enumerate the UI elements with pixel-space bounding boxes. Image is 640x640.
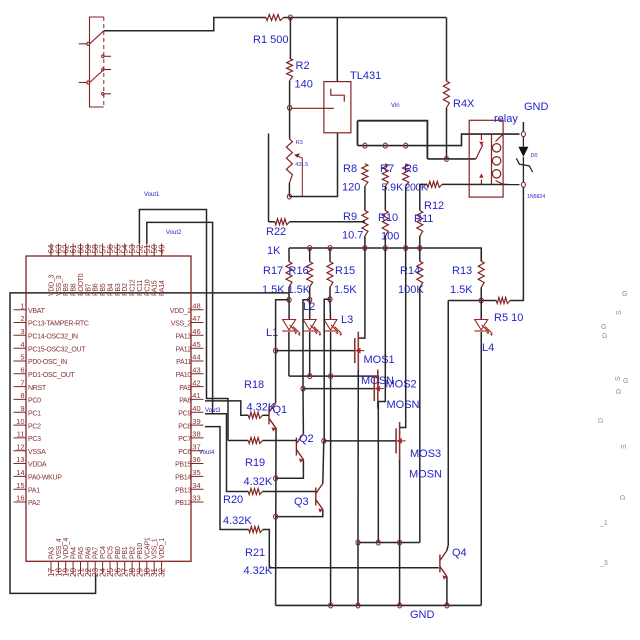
- svg-text:45: 45: [192, 340, 200, 349]
- wire PA7 loop to R17 column: [10, 293, 289, 594]
- diode D0 1N5824: [522, 137, 524, 147]
- svg-text:13: 13: [16, 455, 24, 464]
- svg-text:PB4: PB4: [107, 283, 114, 296]
- svg-text:PA11: PA11: [176, 359, 191, 366]
- resistor R8: [362, 164, 368, 187]
- wire R16 to node: [309, 287, 311, 300]
- svg-text:PA3: PA3: [49, 547, 56, 559]
- wire TL431 cathode to top rail: [336, 18, 338, 82]
- svg-text:VSS_1: VSS_1: [152, 538, 159, 559]
- svg-text:Vin: Vin: [391, 103, 400, 109]
- svg-text:44: 44: [192, 353, 200, 362]
- svg-text:L2: L2: [303, 301, 315, 313]
- node GND MOS1: [356, 603, 360, 608]
- svg-text:34: 34: [192, 481, 200, 490]
- svg-text:PA6: PA6: [85, 547, 92, 559]
- node bus R6 column: [404, 246, 408, 251]
- wire R12 to relay NO contact and coil bottom: [442, 183, 520, 185]
- wire R5 to Q4 collector corner: [448, 300, 496, 302]
- wire MOS1 source to source bus: [357, 370, 359, 543]
- svg-text:47: 47: [192, 314, 200, 323]
- svg-text:PB7: PB7: [85, 283, 92, 296]
- wire R15 to node: [329, 287, 331, 299]
- relay K1 switch: [476, 134, 483, 184]
- svg-text:1.5K: 1.5K: [334, 284, 357, 296]
- svg-text:PA15: PA15: [152, 280, 159, 296]
- wire node to TL431 anode: [289, 133, 337, 197]
- wire Q3 collector column: [323, 441, 324, 484]
- svg-text:PB9: PB9: [63, 283, 70, 296]
- svg-text:120: 120: [342, 182, 360, 194]
- svg-text:4: 4: [20, 340, 24, 349]
- wire top rail down to R4X: [446, 18, 448, 82]
- svg-text:PC15-OSC32_OUT: PC15-OSC32_OUT: [28, 346, 86, 353]
- svg-text:VDD_2: VDD_2: [170, 308, 191, 315]
- node MOS1 gate: [274, 348, 278, 353]
- svg-text:4.32K: 4.32K: [244, 476, 273, 488]
- wire switch to R1: [104, 18, 266, 31]
- wire pin41 to R18: [205, 401, 248, 415]
- svg-text:PA2: PA2: [28, 500, 40, 507]
- switch S1 contacts: [79, 31, 111, 94]
- svg-text:VSS_3: VSS_3: [56, 275, 63, 296]
- svg-text:Vout3: Vout3: [205, 408, 221, 414]
- node R17 bottom: [287, 297, 291, 302]
- node bus R9: [363, 246, 367, 251]
- resistor R20: [248, 489, 262, 495]
- switch S1 throw contact a: [102, 55, 104, 58]
- svg-text:Vout2: Vout2: [166, 230, 182, 236]
- wire node to TL431 ref: [291, 107, 334, 109]
- potentiometer R3 wiper: [296, 155, 303, 196]
- node R13 bottom L4 top: [479, 298, 483, 303]
- svg-text:1K: 1K: [267, 245, 281, 257]
- wire Q2 emitter to Q1 emitter: [276, 460, 304, 479]
- svg-text:PA9: PA9: [179, 385, 191, 392]
- svg-text:PB2: PB2: [130, 546, 137, 559]
- svg-text:VBAT: VBAT: [28, 308, 46, 315]
- wire source bus: [358, 542, 420, 544]
- svg-text:11: 11: [17, 430, 25, 439]
- wire L2 cathode down: [309, 332, 311, 376]
- svg-text:PA10: PA10: [176, 372, 192, 379]
- svg-text:10.7: 10.7: [342, 230, 363, 242]
- svg-text:VDDA: VDDA: [28, 462, 47, 469]
- LED L4: [474, 320, 493, 337]
- wire R10 column to MOS2 source bend: [378, 248, 385, 402]
- resistor R15: [327, 262, 333, 287]
- transistor Q3: [316, 484, 323, 510]
- wire Vin down to divider top: [357, 121, 359, 146]
- wire node to L3: [329, 299, 332, 319]
- svg-text:VDD_4: VDD_4: [63, 538, 70, 559]
- node GND Q4: [445, 603, 449, 608]
- wire R16 node to MOS2 gate column: [303, 300, 310, 389]
- svg-text:S: S: [616, 310, 623, 315]
- svg-text:PD0-OSC_IN: PD0-OSC_IN: [28, 359, 67, 366]
- potentiometer R3: [286, 139, 292, 183]
- svg-text:MOS2: MOS2: [386, 379, 417, 391]
- wire R8 to R9: [364, 186, 366, 210]
- resistor R2: [287, 58, 293, 80]
- svg-text:37: 37: [192, 442, 200, 451]
- svg-text:35: 35: [192, 468, 200, 477]
- svg-text:1.5K: 1.5K: [262, 284, 285, 296]
- svg-text:PC1: PC1: [28, 410, 41, 417]
- node bus R10: [383, 246, 387, 251]
- wire Q4 base line: [269, 567, 439, 569]
- svg-text:MOS3: MOS3: [410, 448, 441, 460]
- node LED line L3: [329, 374, 333, 379]
- wire R12 junction down to R11: [419, 184, 421, 210]
- wire R1 to R4X column: [284, 17, 447, 19]
- node bus R16: [308, 246, 312, 251]
- svg-text:S: S: [615, 376, 622, 381]
- svg-text:38: 38: [192, 430, 200, 439]
- svg-text:L1: L1: [266, 327, 278, 339]
- resistor R13: [478, 261, 484, 287]
- wire Vin rail: [358, 121, 428, 159]
- transistor MOS2: [374, 370, 378, 409]
- wire node to L4: [480, 301, 482, 320]
- wire relay terminal to GND stub: [522, 122, 524, 132]
- svg-text:6: 6: [20, 366, 24, 375]
- svg-text:R2: R2: [296, 60, 310, 72]
- svg-text:PC13-TAMPER-RTC: PC13-TAMPER-RTC: [28, 321, 89, 328]
- node GND MOS3: [398, 603, 402, 608]
- wire R19 to Q2 base: [263, 440, 297, 442]
- switch S1 dashed box: [90, 17, 104, 107]
- svg-text:PA14: PA14: [159, 280, 166, 296]
- svg-text:140: 140: [295, 79, 313, 91]
- svg-text:R7: R7: [380, 163, 394, 175]
- IC U2 MCU body: [26, 256, 191, 561]
- wire R14 column to source bus: [419, 288, 421, 543]
- wire pin39 to R21: [205, 427, 249, 530]
- wire R6 column to bus: [405, 186, 407, 248]
- node MOS3 gate: [322, 438, 326, 443]
- svg-text:46: 46: [192, 327, 200, 336]
- svg-text:PC8: PC8: [178, 423, 191, 430]
- wire top rail to R2: [289, 18, 291, 59]
- wire R22 left: [269, 221, 275, 223]
- svg-text:7: 7: [20, 378, 24, 387]
- transistor Q1: [269, 402, 276, 428]
- svg-text:1.5K: 1.5K: [450, 284, 473, 296]
- svg-text:TL431: TL431: [350, 70, 381, 82]
- svg-text:PB1: PB1: [122, 546, 129, 559]
- wire GND rail: [276, 604, 482, 606]
- svg-text:R3: R3: [296, 140, 303, 146]
- svg-text:PB3: PB3: [115, 283, 122, 296]
- svg-text:PB6: PB6: [93, 283, 100, 296]
- wire reference bus: [289, 248, 481, 261]
- svg-text:D: D: [598, 418, 605, 423]
- svg-text:PA1: PA1: [28, 487, 40, 494]
- svg-text:PD1-OSC_OUT: PD1-OSC_OUT: [28, 372, 76, 379]
- node R6 top: [404, 143, 408, 148]
- svg-text:R8: R8: [343, 163, 357, 175]
- svg-text:2: 2: [20, 314, 24, 323]
- wire R9 column to MOS1 drain: [358, 248, 365, 338]
- svg-text:431.5: 431.5: [295, 162, 308, 168]
- wire R9 to bus: [364, 236, 366, 248]
- svg-text:R10: R10: [378, 212, 398, 224]
- svg-text:Q2: Q2: [299, 433, 314, 445]
- svg-text:VSSA: VSSA: [28, 449, 46, 456]
- wire R17 node to MOS1 gate column: [276, 300, 290, 351]
- wire R6 column to MOS3 drain: [400, 248, 406, 428]
- svg-text:PC0: PC0: [28, 398, 41, 405]
- svg-text:48: 48: [192, 301, 200, 310]
- resistor R16: [307, 262, 313, 287]
- svg-text:3: 3: [20, 327, 24, 336]
- LED L2: [303, 320, 322, 337]
- svg-text:PC6: PC6: [178, 449, 191, 456]
- svg-text:PD2: PD2: [122, 283, 129, 296]
- svg-text:VSS_4: VSS_4: [56, 538, 63, 559]
- svg-text:4.32K: 4.32K: [223, 515, 252, 527]
- svg-text:PC14-OSC32_IN: PC14-OSC32_IN: [28, 334, 78, 341]
- svg-text:R6: R6: [404, 163, 418, 175]
- svg-text:PC4: PC4: [100, 546, 107, 559]
- wire Q4 emitter to GND: [446, 577, 448, 606]
- wire R22 left stub: [268, 134, 270, 222]
- svg-text:100: 100: [381, 231, 399, 243]
- wire L4 cathode to GND rail: [480, 332, 482, 605]
- svg-text:42: 42: [192, 378, 200, 387]
- node R4X bottom: [444, 156, 448, 161]
- svg-text:PB13: PB13: [175, 487, 191, 494]
- wire R4X to mid rail: [446, 108, 448, 159]
- svg-text:43: 43: [192, 366, 200, 375]
- resistor R4X: [443, 81, 449, 108]
- relay K1 body: [469, 120, 503, 197]
- svg-text:PA13: PA13: [176, 334, 192, 341]
- svg-text:PC2: PC2: [28, 423, 41, 430]
- svg-text:PA5: PA5: [78, 547, 85, 559]
- wire Q4 collector column: [447, 301, 449, 546]
- LED L3: [324, 320, 343, 337]
- resistor R14: [417, 261, 423, 287]
- svg-text:PB12: PB12: [175, 500, 191, 507]
- svg-text:36: 36: [192, 455, 200, 464]
- svg-text:Q3: Q3: [294, 496, 309, 508]
- wire MOS3 source to GND: [399, 460, 401, 606]
- node source bus MOS3: [398, 540, 402, 545]
- resistor R12: [427, 181, 442, 187]
- wire MOS1 source to GND rail: [357, 543, 359, 606]
- svg-text:16: 16: [16, 494, 24, 503]
- svg-text:33: 33: [192, 494, 200, 503]
- svg-text:R4X: R4X: [453, 98, 475, 110]
- svg-text:PB10: PB10: [137, 543, 144, 559]
- svg-text:R14: R14: [400, 265, 420, 277]
- wire Q3 emitter to Q1 emitter: [276, 510, 323, 517]
- node bus R15: [328, 246, 332, 251]
- wire Vout1 pin52 to R19: [139, 210, 228, 441]
- node source bus MOS1: [356, 540, 360, 545]
- svg-text:G: G: [622, 291, 627, 298]
- svg-text:R13: R13: [452, 265, 472, 277]
- svg-text:10: 10: [16, 417, 24, 426]
- resistor R6: [403, 164, 409, 187]
- wire R17 to node: [288, 287, 290, 300]
- svg-text:Q4: Q4: [452, 547, 467, 559]
- svg-text:PC7: PC7: [178, 436, 191, 443]
- resistor R7: [382, 164, 388, 187]
- wire R13 to node: [480, 288, 482, 301]
- svg-text:GND: GND: [410, 609, 435, 621]
- wire mid rail to relay common: [427, 158, 475, 160]
- node GND L3: [329, 603, 333, 608]
- svg-text:PA0-WKUP: PA0-WKUP: [28, 475, 62, 482]
- svg-text:4.32K: 4.32K: [247, 402, 276, 414]
- wire MOS1 gate: [276, 350, 355, 352]
- svg-text:R21: R21: [245, 547, 265, 559]
- node R8 top: [363, 143, 367, 148]
- svg-text:PB8: PB8: [71, 283, 78, 296]
- svg-text:D0: D0: [531, 153, 538, 159]
- svg-text:PA4: PA4: [71, 547, 78, 559]
- MCU left and right pin stubs: [14, 310, 204, 502]
- wire bus to R14: [419, 248, 421, 261]
- svg-text:1N5824: 1N5824: [527, 194, 545, 200]
- wire R11 column to R12: [420, 183, 427, 185]
- svg-text:R15: R15: [335, 265, 355, 277]
- svg-text:200K: 200K: [405, 182, 428, 194]
- svg-text:R12: R12: [424, 200, 444, 212]
- svg-text:G: G: [623, 378, 628, 385]
- svg-text:VCAP1: VCAP1: [144, 537, 151, 559]
- node LED line L2: [308, 374, 312, 379]
- resistor R19: [248, 438, 262, 444]
- svg-text:40: 40: [192, 404, 200, 413]
- resistor R11: [417, 211, 423, 237]
- node emitters Q1 Q3: [274, 514, 278, 519]
- svg-text:GND: GND: [524, 101, 549, 113]
- wire bus to R15: [329, 248, 331, 262]
- svg-text:G: G: [601, 324, 606, 331]
- wire divider top rail to relay NC and coil: [358, 134, 520, 146]
- svg-text:12: 12: [16, 442, 24, 451]
- wire staircase to R19: [228, 440, 248, 442]
- wire node to R3: [289, 108, 291, 139]
- svg-text:PB0: PB0: [115, 546, 122, 559]
- svg-text:NRST: NRST: [28, 385, 47, 392]
- transistor Q4: [440, 551, 447, 577]
- wire R15 node to MOS3 gate column: [324, 299, 330, 441]
- wire R18 to Q1 base: [263, 414, 270, 416]
- node top rail at R1: [288, 15, 292, 20]
- node R15 bottom: [328, 297, 332, 302]
- wire bus to R17: [288, 248, 290, 262]
- wire MOS3 gate: [324, 440, 396, 442]
- resistor R9: [362, 211, 368, 237]
- svg-text:MOS1: MOS1: [364, 354, 395, 366]
- relay terminal bottom: [521, 182, 525, 187]
- relay terminal top: [521, 132, 525, 137]
- wire MOS2 source to source bus: [377, 402, 379, 543]
- wire Q2 collector column: [302, 389, 304, 434]
- svg-text:_3: _3: [599, 560, 608, 567]
- svg-text:G: G: [602, 333, 607, 340]
- wire MOS2 gate: [303, 388, 374, 390]
- svg-text:15: 15: [16, 481, 24, 490]
- node R2 bottom: [288, 105, 292, 110]
- node bus R14: [418, 246, 422, 251]
- svg-text:R11: R11: [414, 213, 433, 225]
- svg-text:PC11: PC11: [137, 280, 144, 296]
- svg-text:VDD_3: VDD_3: [49, 275, 56, 296]
- svg-text:PA7: PA7: [93, 547, 100, 559]
- svg-text:9: 9: [20, 404, 24, 413]
- svg-text:49: 49: [158, 244, 167, 254]
- LED L1: [282, 320, 301, 337]
- svg-text:PC10: PC10: [144, 279, 151, 296]
- wire L1 cathode down: [288, 332, 290, 376]
- wire node to L1: [288, 300, 290, 319]
- svg-text:BOOT0: BOOT0: [78, 273, 85, 296]
- wire relay terminal down to R5: [510, 187, 523, 301]
- svg-text:PB5: PB5: [100, 283, 107, 296]
- wire Vout3 pin40 to R20: [205, 414, 248, 492]
- svg-text:S: S: [621, 444, 628, 449]
- resistor R17: [286, 262, 292, 287]
- svg-text:relay: relay: [494, 113, 518, 125]
- svg-text:5: 5: [20, 353, 24, 362]
- wire R20 to Q3 base: [263, 491, 316, 493]
- resistor R10: [382, 211, 388, 237]
- wire Q4 collector join: [447, 545, 448, 551]
- wire R2 to node: [289, 81, 291, 108]
- svg-text:R18: R18: [244, 379, 264, 391]
- node R3 bottom: [287, 194, 291, 199]
- svg-text:39: 39: [192, 417, 200, 426]
- wire R10 to bus: [384, 236, 386, 248]
- svg-text:R1 500: R1 500: [253, 34, 288, 46]
- resistor R1: [266, 15, 284, 21]
- svg-text:41: 41: [192, 391, 200, 400]
- wire node to L2: [309, 300, 311, 319]
- wire R7 to R10: [384, 186, 386, 210]
- wire R3 to node: [288, 183, 290, 197]
- svg-text:D: D: [620, 495, 627, 500]
- svg-text:R17: R17: [263, 265, 283, 277]
- svg-text:R20: R20: [223, 494, 243, 506]
- node source bus MOS2: [376, 540, 380, 545]
- transistor MOS1: [355, 332, 359, 371]
- svg-text:Vout1: Vout1: [144, 192, 160, 198]
- svg-text:8: 8: [20, 391, 24, 400]
- svg-text:R19: R19: [245, 457, 265, 469]
- resistor R5: [496, 298, 510, 304]
- svg-text:_1: _1: [599, 520, 608, 527]
- IC U1 TL431 internal symbol: [331, 89, 345, 102]
- svg-text:L4: L4: [482, 342, 494, 354]
- svg-text:32: 32: [158, 567, 167, 577]
- svg-text:PA12: PA12: [176, 346, 192, 353]
- switch S1 pole-1 contact: [87, 42, 90, 45]
- IC U1 TL431 body: [324, 82, 351, 133]
- svg-text:PA8: PA8: [179, 398, 191, 405]
- svg-text:R5 10: R5 10: [494, 312, 523, 324]
- svg-text:1.5K: 1.5K: [288, 284, 311, 296]
- svg-text:PC5: PC5: [107, 546, 114, 559]
- wire LED cathodes to MOS2 drain: [289, 376, 378, 384]
- svg-text:PC9: PC9: [178, 410, 191, 417]
- wire Q1 emitter to GND corner: [275, 428, 277, 605]
